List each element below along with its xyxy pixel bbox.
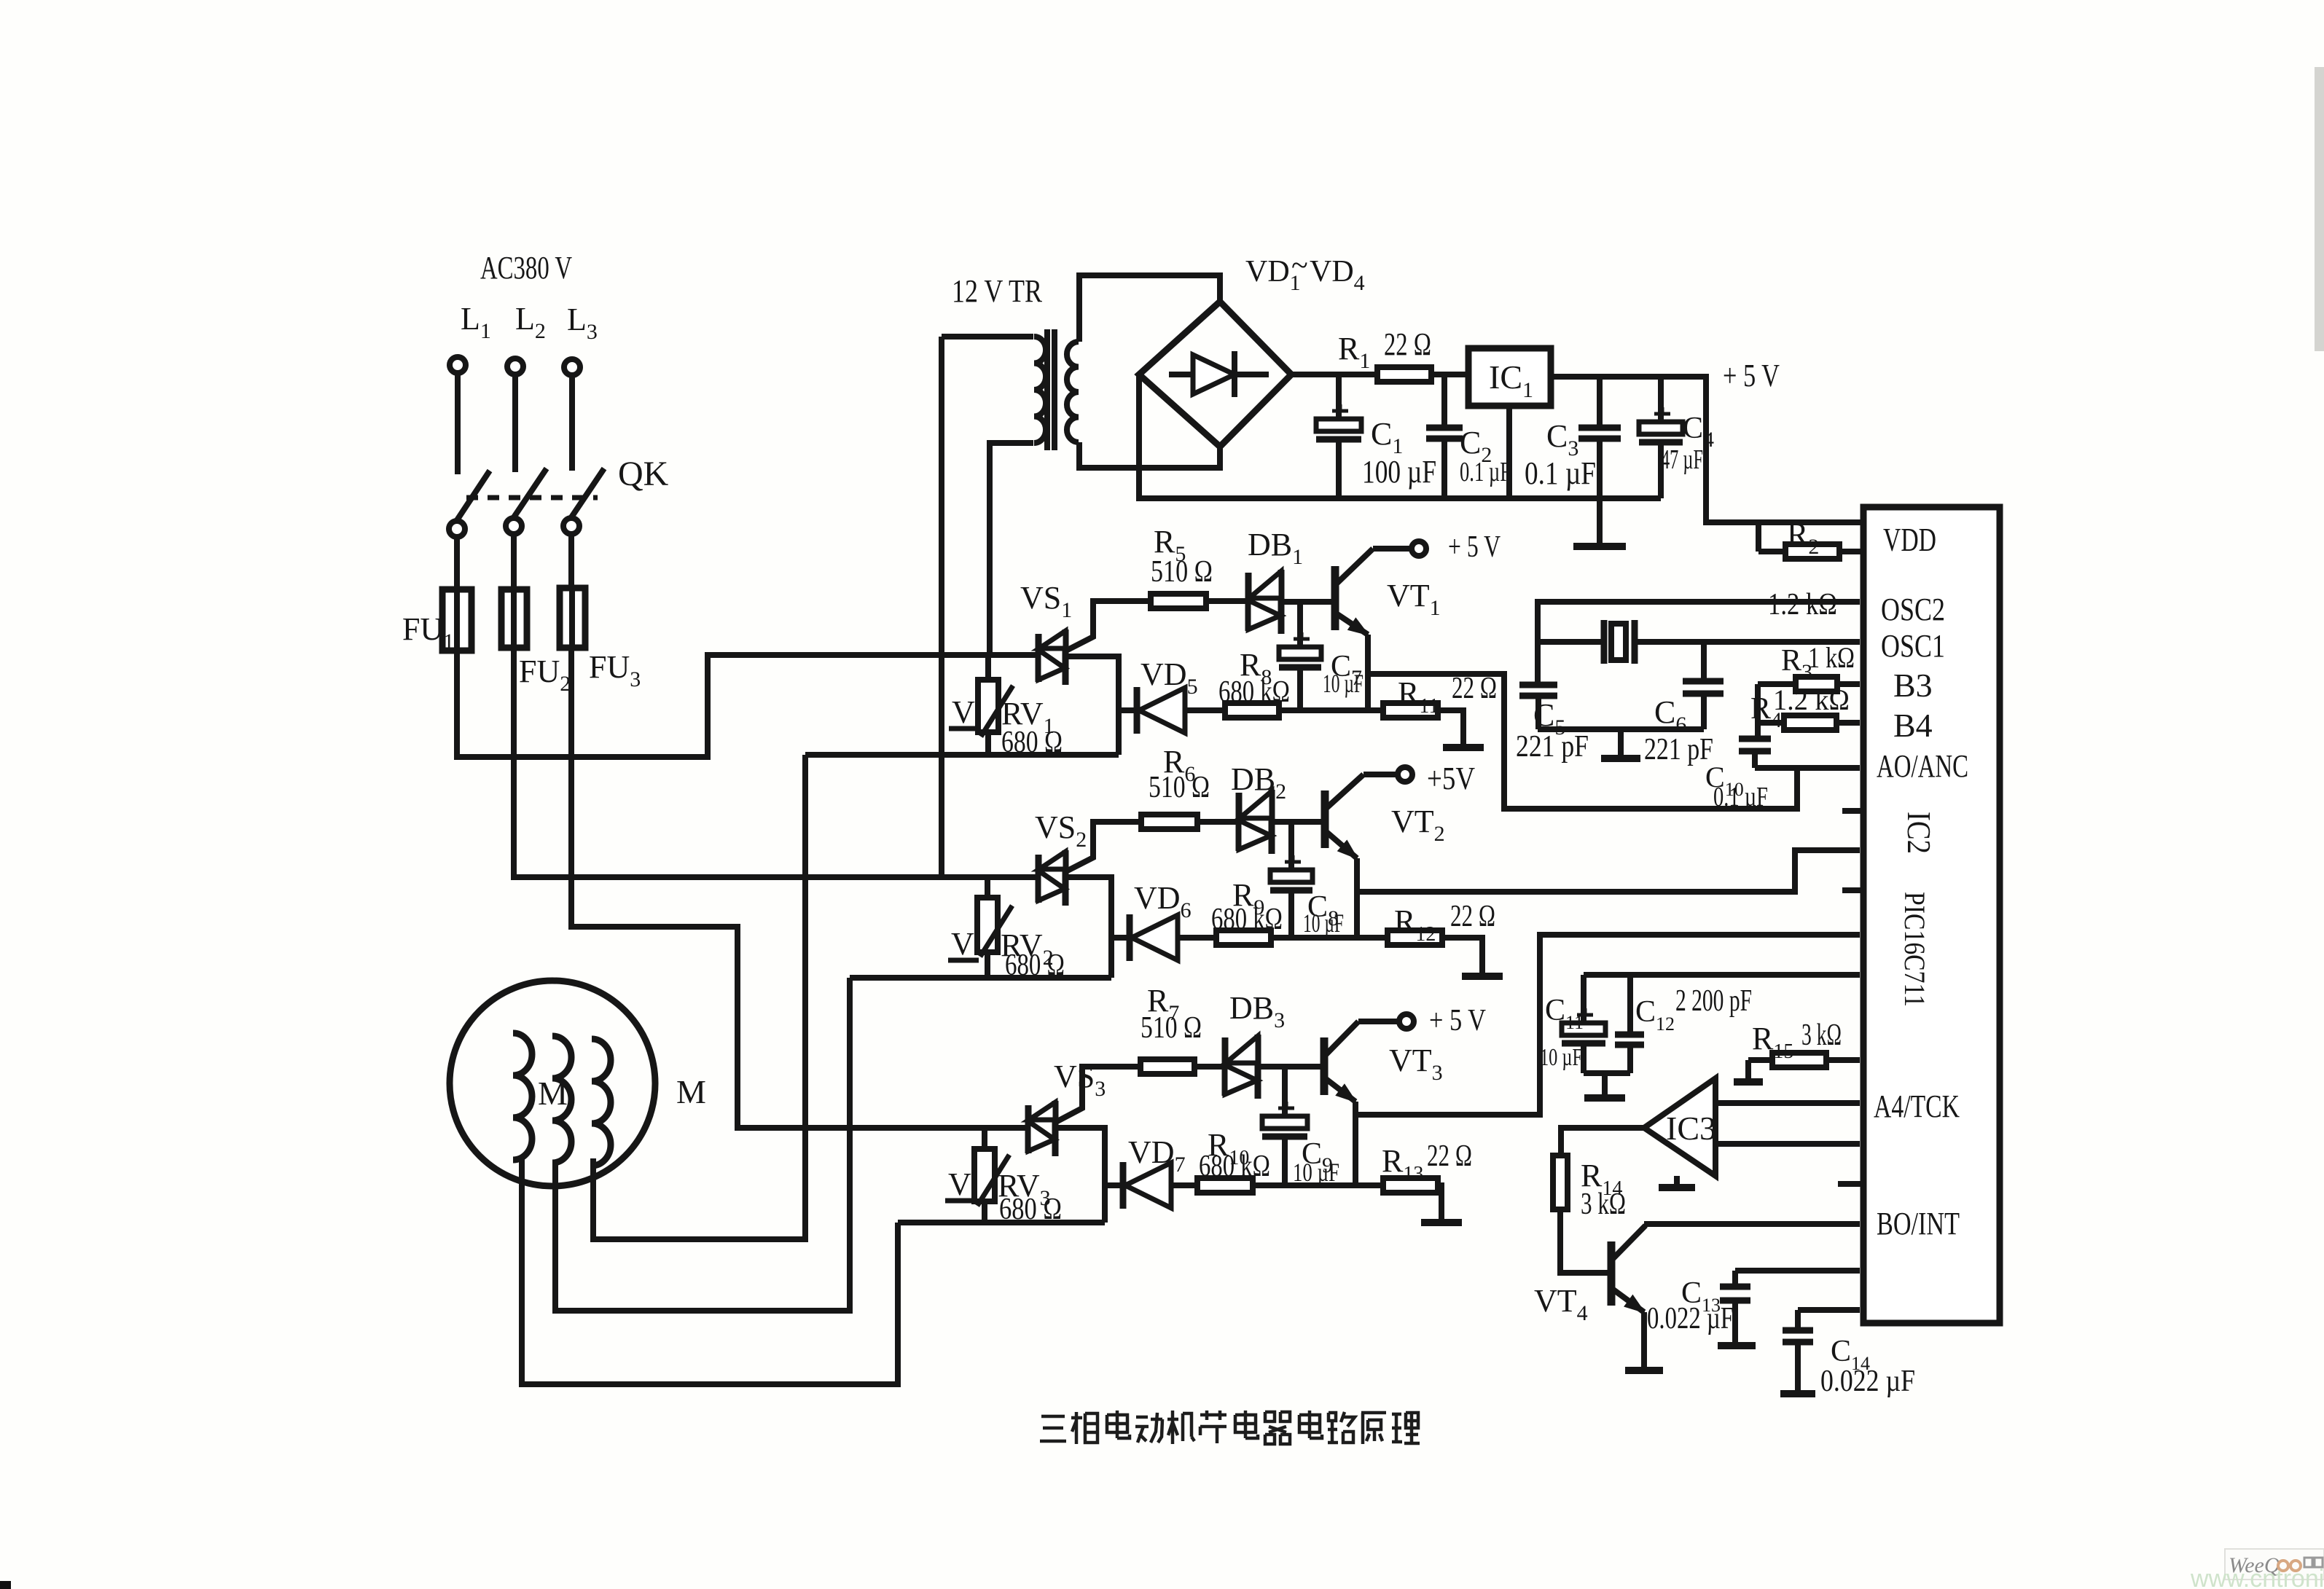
resistor R11 label: [1398, 675, 1439, 718]
wire L1 lead: [455, 373, 461, 474]
capacitor C8 value: [1303, 909, 1344, 938]
capacitor C1 value: [1362, 454, 1436, 490]
wire DB2 to VT2 base: [1272, 819, 1325, 825]
svg-text:0.1 µF: 0.1 µF: [1525, 455, 1596, 491]
svg-text:B4: B4: [1893, 707, 1933, 744]
transformer TR label: [952, 273, 1043, 309]
triac VS3 label: [1054, 1059, 1106, 1101]
bridge rectifier VD1~VD4: [1139, 302, 1291, 447]
svg-text:OSC1: OSC1: [1881, 628, 1945, 664]
resistor R11 value: [1452, 672, 1497, 705]
capacitor C13 wire: [1735, 1268, 1860, 1274]
varistor RV2 V mark: [948, 926, 979, 962]
wire R1 to IC1: [1431, 372, 1468, 377]
node +5V label 2: [1427, 761, 1475, 796]
triac VS2 label: [1035, 809, 1087, 852]
svg-text:BO/INT: BO/INT: [1877, 1206, 1960, 1241]
svg-text:221 pF: 221 pF: [1516, 730, 1589, 764]
node +5V label 1: [1448, 530, 1501, 564]
wire TR primary bottom lead: [990, 443, 1033, 655]
capacitor C5: [1519, 685, 1557, 729]
triac VS1 label: [1020, 580, 1072, 622]
motor winding 1: [513, 1033, 532, 1160]
svg-text:IC3: IC3: [1666, 1110, 1716, 1147]
varistor RV3 V mark: [945, 1166, 976, 1202]
svg-text:22 Ω: 22 Ω: [1427, 1139, 1472, 1173]
capacitor C13: [1720, 1271, 1750, 1343]
resistor R3: [1758, 677, 1860, 691]
resistor R6 label: [1163, 744, 1195, 786]
svg-text:AC380 V: AC380 V: [480, 250, 572, 286]
wire VT3 collector to +5V: [1358, 1019, 1398, 1024]
varistor RV1 label: [1001, 696, 1055, 738]
svg-text:12 V TR: 12 V TR: [952, 273, 1043, 309]
transistor VT2: [1325, 774, 1364, 858]
wire TR secondary bottom lead: [1079, 442, 1220, 468]
resistor R9: [1216, 930, 1271, 945]
resistor R2 label: [1787, 517, 1819, 559]
capacitor C14 wire: [1798, 1307, 1860, 1313]
svg-text:A4/TCK: A4/TCK: [1874, 1088, 1960, 1124]
wire VS1 block bottom: [805, 752, 1119, 758]
wire DB3 to VT3 base: [1258, 1064, 1324, 1070]
triac VS3: [1028, 1101, 1055, 1156]
resistor R5 value: [1151, 555, 1213, 589]
varistor RV1 V mark: [949, 694, 979, 730]
ic IC2 part number label: [1898, 892, 1931, 1007]
pin BO/INT label: [1877, 1206, 1960, 1241]
motor winding 2: [552, 1036, 571, 1163]
wire L3 phase: [571, 648, 1028, 1128]
wire to FU3: [568, 534, 574, 588]
capacitor C2 label: [1460, 425, 1492, 467]
node L2 label: [515, 301, 546, 343]
ground below R13: [1421, 1219, 1462, 1226]
wire L2 lead: [512, 374, 518, 472]
resistor R4 label: [1750, 683, 1850, 732]
wire IC1 gnd pin: [1506, 406, 1512, 498]
svg-text:V: V: [951, 926, 974, 962]
wire TR secondary top lead: [1079, 275, 1220, 342]
capacitor C10 value: [1713, 782, 1768, 812]
pin AO/ANC label: [1877, 748, 1968, 784]
wire C11 C12 to IC2: [1584, 972, 1860, 978]
diode VD7 label: [1128, 1134, 1186, 1177]
wire IC1 out rail: [1551, 377, 1863, 522]
wire VT1 emitter: [1365, 635, 1371, 710]
diode VD6 label: [1134, 880, 1192, 922]
resistor R8 label: [1240, 647, 1272, 689]
ground below IC3: [1659, 1176, 1695, 1188]
transistor VT1 label: [1387, 578, 1441, 620]
wire motor winding2 to VS2 block: [555, 978, 850, 1311]
svg-text:47 µF: 47 µF: [1661, 444, 1703, 475]
svg-text:+ 5 V: + 5 V: [1448, 530, 1501, 564]
resistor R5 label: [1154, 524, 1186, 566]
node +5V label 3: [1429, 1004, 1486, 1037]
wire TR primary top lead: [942, 334, 1033, 340]
fuse FU3 label: [589, 649, 641, 691]
pin VDD label: [1883, 521, 1936, 558]
node +5V terminal 2: [1398, 767, 1412, 782]
transistor VT4 label: [1534, 1283, 1588, 1325]
fuse FU2: [501, 589, 527, 648]
svg-text:B3: B3: [1893, 667, 1933, 704]
wire VT2 emitter to IC2: [1357, 850, 1860, 892]
capacitor C12 label: [1635, 995, 1675, 1035]
resistor R10 label: [1208, 1127, 1249, 1169]
resistor R1 label: [1338, 331, 1370, 373]
svg-text:10 µF: 10 µF: [1323, 669, 1364, 698]
capacitor C6 label: [1654, 694, 1686, 737]
pin B3 label: [1893, 667, 1933, 704]
switch QK blade 1: [457, 471, 490, 520]
wire R14 to VT4 base: [1560, 1209, 1611, 1273]
wire IC3 input 2: [1715, 1141, 1860, 1147]
svg-text:680 kΩ: 680 kΩ: [1199, 1150, 1270, 1183]
wire VD5 tap: [1119, 707, 1137, 713]
wire VS2 block bottom: [850, 975, 1111, 981]
svg-text:510 Ω: 510 Ω: [1151, 555, 1213, 589]
motor M label inside: [538, 1075, 568, 1112]
wire R9 to R12: [1271, 935, 1388, 941]
wire VD6 tap: [1111, 935, 1130, 941]
varistor RV1 value: [1001, 726, 1063, 759]
ground below C14: [1780, 1390, 1815, 1397]
crystal X1: [1604, 620, 1635, 664]
node L3 terminal: [564, 359, 580, 375]
node +5V terminal 3: [1399, 1014, 1414, 1029]
capacitor C12: [1615, 975, 1644, 1073]
svg-text:www.cntronics.com: www.cntronics.com: [2190, 1565, 2324, 1589]
diac DB1 label: [1248, 527, 1303, 569]
pin A4/TCK label: [1874, 1088, 1960, 1124]
triac VS3 gate wire: [1056, 1067, 1141, 1122]
wire VD6 to R9: [1178, 935, 1216, 941]
capacitor C5 label: [1533, 697, 1565, 739]
wire R10 to R13: [1253, 1182, 1383, 1188]
wire R7 to DB3: [1194, 1064, 1225, 1070]
transistor VT4: [1611, 1225, 1646, 1312]
svg-text:1 kΩ: 1 kΩ: [1808, 641, 1855, 674]
ground below C13: [1718, 1342, 1756, 1349]
wire VT1 emitter to AO/ANC: [1368, 674, 1860, 809]
capacitor C13 label: [1681, 1276, 1721, 1316]
op-amp IC3 label: [1666, 1110, 1716, 1147]
capacitor C11 label: [1545, 994, 1584, 1033]
regulator IC1: [1468, 348, 1551, 406]
op-amp IC3: [1644, 1078, 1715, 1176]
wire OSC2 net: [1538, 602, 1860, 685]
svg-text:10 µF: 10 µF: [1540, 1044, 1582, 1071]
pin stub 1: [1842, 808, 1863, 814]
capacitor C12 value: [1675, 984, 1752, 1018]
resistor R8: [1225, 703, 1279, 718]
wire L3 lead: [569, 375, 575, 471]
node L2 terminal: [507, 358, 523, 374]
resistor R13 value: [1427, 1139, 1472, 1173]
resistor R12 label: [1394, 903, 1436, 946]
wire DB1 to VT1 base: [1281, 599, 1335, 605]
microcontroller IC2 box: [1863, 507, 2000, 1323]
resistor R10: [1197, 1178, 1253, 1193]
diode VD5 label: [1141, 656, 1198, 699]
ground below C3: [1573, 498, 1626, 546]
svg-text:M: M: [676, 1073, 706, 1110]
wire R3 R4 to C10: [1755, 684, 1761, 739]
resistor R12: [1388, 930, 1442, 945]
capacitor C6 value: [1644, 733, 1713, 766]
svg-text:~: ~: [1291, 249, 1308, 283]
bridge rectifier VD1~VD4 label: [1245, 249, 1365, 295]
wire VS2 block right: [1065, 877, 1111, 978]
capacitor C7: [1279, 602, 1321, 709]
switch QK blade 3: [571, 468, 604, 517]
varistor RV3 value: [999, 1193, 1062, 1226]
capacitor C2: [1426, 374, 1463, 498]
fuse FU1: [442, 589, 472, 651]
capacitor C1: [1316, 374, 1361, 498]
svg-text:0.1 µF: 0.1 µF: [1460, 457, 1511, 487]
transistor VT3 label: [1389, 1043, 1443, 1085]
wire IC3 output to R14: [1561, 1128, 1644, 1156]
resistor R15 label: [1752, 1019, 1842, 1063]
resistor R4: [1758, 715, 1860, 730]
resistor R1 value: [1384, 326, 1431, 362]
motor M label outside: [676, 1073, 706, 1110]
svg-text:510 Ω: 510 Ω: [1149, 771, 1210, 804]
resistor R1: [1377, 367, 1431, 382]
fuse FU3: [560, 588, 585, 648]
pin OSC1 label: [1881, 628, 1945, 664]
svg-text:680 kΩ: 680 kΩ: [1211, 903, 1283, 936]
pin stub 2: [1842, 887, 1863, 893]
capacitor C9 value: [1293, 1158, 1339, 1187]
capacitor C11: [1562, 975, 1605, 1073]
node L1 label: [461, 301, 491, 343]
wire VT2 collector to +5V: [1364, 772, 1397, 777]
pin OSC2 label: [1881, 592, 1945, 627]
ground below R11: [1443, 744, 1484, 751]
resistor R5: [1151, 594, 1206, 608]
svg-text:AO/ANC: AO/ANC: [1877, 748, 1968, 784]
resistor R15: [1748, 1053, 1860, 1067]
svg-text:OSC2: OSC2: [1881, 592, 1945, 627]
ground below R15: [1734, 1060, 1763, 1082]
resistor R7 label: [1147, 983, 1179, 1025]
wire VS3 block bottom: [898, 1220, 1105, 1225]
capacitor C14 value: [1820, 1365, 1915, 1398]
resistor R3 label: [1781, 641, 1855, 684]
wire L1 phase: [457, 651, 1038, 757]
pin B4 label: [1893, 707, 1933, 744]
resistor R7 value: [1141, 1011, 1202, 1045]
svg-text:510 Ω: 510 Ω: [1141, 1011, 1202, 1045]
wire VD5 to R8: [1185, 707, 1225, 713]
capacitor C5 value: [1516, 730, 1589, 764]
varistor RV1: [978, 655, 1013, 755]
wire R5 to DB1: [1206, 598, 1248, 604]
capacitor C3 value: [1525, 455, 1596, 491]
node +5V rail label: [1723, 358, 1780, 393]
capacitor C9 label: [1302, 1137, 1333, 1177]
triac VS1: [1038, 629, 1065, 685]
transistor VT3: [1324, 1021, 1358, 1102]
svg-text:QK: QK: [618, 455, 669, 493]
svg-text:22 Ω: 22 Ω: [1384, 326, 1431, 362]
capacitor C14 label: [1831, 1335, 1870, 1374]
wire GND rail: [1139, 374, 1661, 498]
resistor R10 value: [1199, 1150, 1270, 1183]
capacitor C6: [1683, 642, 1724, 729]
wire C11 C12 bottom: [1584, 1070, 1630, 1076]
transformer TR core: [1047, 329, 1055, 450]
svg-text:680 kΩ: 680 kΩ: [1218, 675, 1290, 709]
wire BO/INT: [1644, 1221, 1860, 1227]
varistor RV2 value: [1005, 949, 1065, 982]
diac DB2: [1239, 790, 1272, 854]
wire VT3 emitter to IC2: [1355, 935, 1860, 1115]
switch QK linkage (dashed): [466, 495, 598, 501]
resistor R12 value: [1450, 900, 1495, 933]
caption 三相电动机节电器电路原理: [1040, 1411, 1420, 1444]
resistor R8 value: [1218, 675, 1290, 709]
svg-text:100 µF: 100 µF: [1362, 454, 1436, 490]
wire VS3 block right: [1055, 1128, 1105, 1223]
switch QK blade 2: [514, 468, 547, 517]
svg-text:2 200 pF: 2 200 pF: [1675, 984, 1752, 1018]
diac DB2 label: [1231, 761, 1286, 804]
ic IC2 name label: [1901, 812, 1938, 854]
wire R11 to ground: [1438, 710, 1463, 745]
wire IC3 input 1 / A4-TCK: [1715, 1100, 1860, 1106]
triac VS2: [1038, 850, 1065, 906]
diac DB3: [1225, 1035, 1258, 1099]
svg-text:1.2 kΩ: 1.2 kΩ: [1773, 683, 1850, 716]
resistor R11: [1383, 703, 1438, 718]
resistor R14 value: [1581, 1188, 1626, 1221]
wire VT1 collector to +5V: [1373, 546, 1411, 552]
fuse FU1 label: [402, 611, 454, 654]
svg-text:+ 5 V: + 5 V: [1429, 1004, 1486, 1037]
scan smudge right edge: [2315, 67, 2324, 351]
switch QK label: [618, 455, 669, 493]
capacitor C1 label: [1371, 416, 1403, 458]
resistor R9 value: [1211, 903, 1283, 936]
capacitor C10 label: [1705, 761, 1744, 800]
scan mark bottom left: [0, 1581, 11, 1589]
wire to FU2: [511, 534, 517, 589]
wire R12 to ground: [1442, 938, 1482, 973]
diode VD6: [1130, 914, 1178, 961]
resistor R2 value: [1768, 588, 1837, 621]
transistor VT2 label: [1391, 804, 1445, 846]
ground below C11 C12: [1584, 1073, 1625, 1098]
capacitor C2 value: [1460, 457, 1511, 487]
resistor R13 label: [1382, 1143, 1423, 1185]
capacitor C8: [1270, 822, 1312, 938]
svg-text:0.022 µF: 0.022 µF: [1820, 1365, 1915, 1398]
triac VS1 gate wire: [1066, 601, 1151, 651]
varistor RV3: [974, 1128, 1009, 1223]
watermark WeeQoo logo: [2225, 1549, 2324, 1580]
resistor R14: [1553, 1156, 1568, 1209]
svg-text:IC2: IC2: [1901, 812, 1938, 854]
watermark url: [2190, 1565, 2324, 1589]
switch QK contact 3: [563, 518, 579, 534]
varistor RV2: [977, 877, 1012, 978]
capacitor C13 value: [1647, 1302, 1734, 1335]
wire VD7 to R10: [1171, 1182, 1197, 1188]
wire VS1 block right: [1065, 656, 1119, 755]
pin stub 3: [1838, 1181, 1863, 1187]
capacitor C9: [1262, 1067, 1307, 1185]
capacitor C11 value: [1540, 1044, 1582, 1071]
svg-text:0.022 µF: 0.022 µF: [1647, 1302, 1734, 1335]
switch QK contact 1: [449, 521, 465, 537]
wire to FU1: [454, 537, 460, 589]
transformer TR primary winding: [1034, 337, 1046, 443]
svg-text:M: M: [538, 1075, 568, 1112]
node +5V terminal 1: [1412, 541, 1426, 556]
svg-text:+ 5 V: + 5 V: [1723, 358, 1780, 393]
switch QK contact 2: [506, 518, 522, 534]
node L1 terminal: [450, 357, 466, 373]
wire motor winding1 to VS3 block: [522, 1158, 898, 1384]
wire VT2 emitter: [1354, 858, 1360, 938]
svg-text:V: V: [952, 694, 975, 730]
wire R13 to ground: [1438, 1185, 1441, 1220]
ground below crystal: [1601, 729, 1640, 758]
svg-text:3 kΩ: 3 kΩ: [1581, 1188, 1626, 1221]
resistor R6: [1141, 815, 1197, 829]
diode VD5: [1137, 687, 1185, 734]
wire crystal bottom: [1538, 726, 1704, 732]
wire L2 phase: [514, 648, 1038, 877]
svg-text:10 µF: 10 µF: [1303, 909, 1344, 938]
wire OSC1 net: [1539, 639, 1860, 645]
triac VS2 gate wire: [1066, 822, 1141, 871]
resistor R2: [1758, 522, 1863, 559]
capacitor C4 value: [1661, 444, 1703, 475]
capacitor C7 value: [1323, 669, 1364, 698]
resistor R14 label: [1581, 1158, 1622, 1200]
transistor VT1: [1335, 549, 1373, 635]
svg-text:22 Ω: 22 Ω: [1450, 900, 1495, 933]
capacitor C14: [1783, 1310, 1813, 1391]
capacitor C7 label: [1331, 650, 1362, 690]
capacitor C8 label: [1307, 890, 1339, 930]
node L3 label: [567, 302, 598, 344]
svg-text:V: V: [948, 1166, 971, 1202]
resistor R7: [1141, 1059, 1194, 1074]
varistor RV3 label: [998, 1168, 1051, 1210]
resistor R9 label: [1232, 877, 1264, 919]
resistor R13: [1383, 1178, 1438, 1193]
motor M circle: [450, 981, 655, 1186]
svg-text:3 kΩ: 3 kΩ: [1801, 1019, 1842, 1052]
wire DC+ rail: [1291, 372, 1377, 377]
svg-text:PIC16C711: PIC16C711: [1898, 892, 1931, 1007]
transformer TR secondary winding: [1067, 342, 1079, 442]
capacitor C10: [1739, 739, 1771, 768]
wire motor winding3 to VS1 block: [593, 755, 805, 1239]
diac DB3 label: [1229, 990, 1285, 1032]
svg-text:221 pF: 221 pF: [1644, 733, 1713, 766]
svg-text:VDD: VDD: [1883, 521, 1936, 558]
diode VD7: [1123, 1162, 1171, 1209]
regulator IC1 label: [1489, 358, 1533, 402]
